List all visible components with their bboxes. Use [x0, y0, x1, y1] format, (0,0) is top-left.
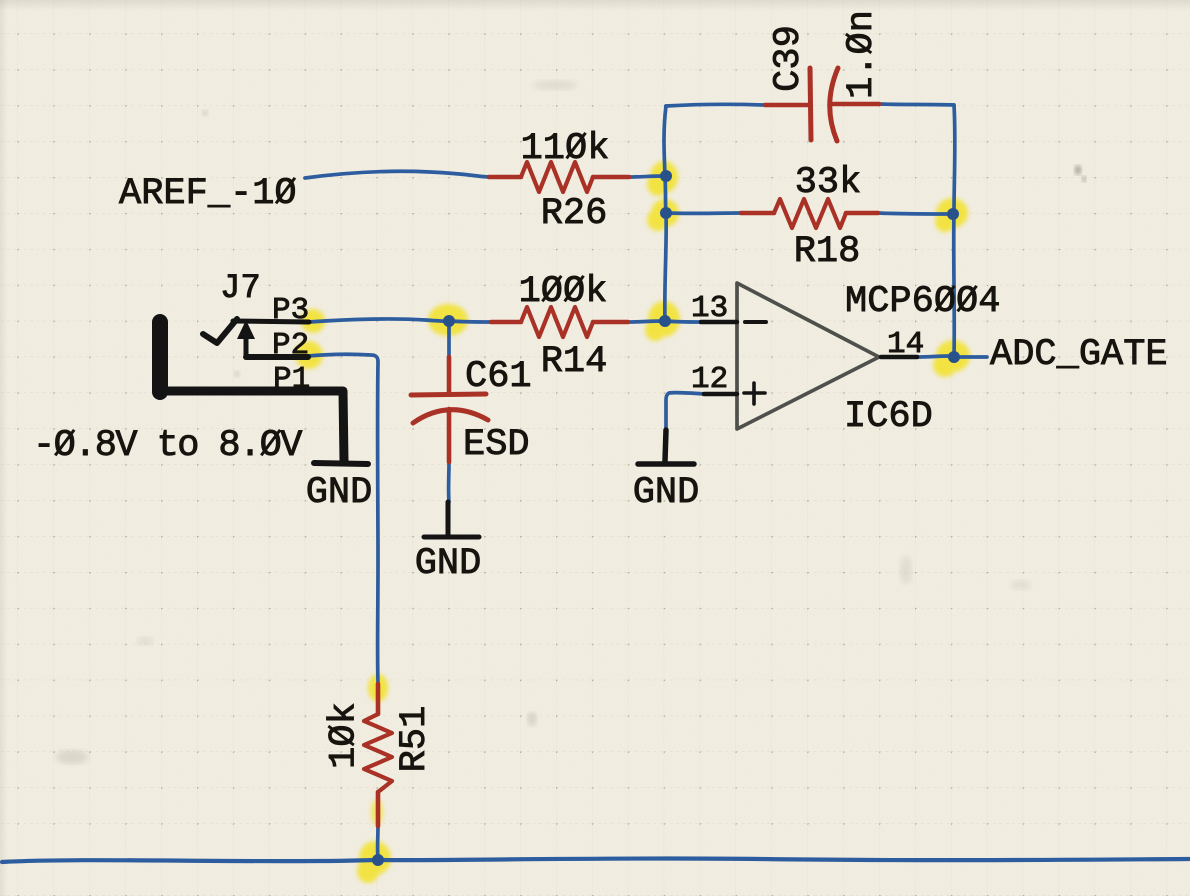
- svg-text:P1: P1: [273, 362, 310, 397]
- svg-text:14: 14: [887, 327, 924, 362]
- svg-text:11Øk: 11Øk: [521, 128, 610, 170]
- node R18 right: [947, 208, 959, 220]
- gnd symbol pin12: [638, 430, 694, 464]
- resistor R26: [489, 175, 521, 180]
- resistor R14: [491, 320, 521, 325]
- wire AREF to R26: [305, 171, 489, 178]
- capacitor C61: [447, 357, 452, 394]
- R51 top highlight: [368, 674, 388, 702]
- pin 13 line: [701, 320, 737, 325]
- wire bottom rail: [2, 858, 1189, 862]
- svg-text:C39: C39: [768, 25, 810, 92]
- J7 body bar: [152, 322, 168, 392]
- node highlight output: [936, 340, 970, 372]
- resistor R51: [376, 684, 381, 714]
- wire pin12 to gnd: [666, 393, 704, 430]
- capacitor C39: [765, 103, 810, 108]
- svg-text:C61: C61: [465, 356, 532, 398]
- wire C61 node to R14: [449, 321, 491, 322]
- J7 gnd bar: [314, 463, 368, 464]
- wire node to pin13: [665, 321, 701, 322]
- wire R14 to pin13 node: [628, 321, 665, 322]
- node output: [948, 351, 960, 363]
- node highlight R18 right: [936, 198, 968, 228]
- wire output node to label: [959, 355, 987, 359]
- wire top rail left: [666, 104, 764, 106]
- node R18 left: [660, 207, 672, 219]
- svg-text:P2: P2: [272, 328, 309, 363]
- op-amp minus sign: [745, 320, 766, 324]
- svg-text:13: 13: [691, 291, 728, 326]
- node bottom rail: [372, 854, 384, 866]
- svg-text:ADC_GATE: ADC_GATE: [990, 334, 1168, 376]
- wire R18 right: [878, 213, 953, 214]
- wire C61 top segment: [447, 323, 451, 357]
- pin 14 line: [881, 355, 917, 360]
- paper smudges: [56, 80, 1087, 764]
- svg-text:GND: GND: [306, 472, 373, 514]
- svg-text:R26: R26: [541, 193, 608, 235]
- svg-text:MCP6ØØ4: MCP6ØØ4: [845, 281, 1000, 323]
- node highlight R18 left: [651, 199, 679, 227]
- pin 12 line: [704, 392, 737, 397]
- wire P2 down to R51: [308, 354, 378, 683]
- resistor R18: [741, 211, 774, 216]
- svg-text:R51: R51: [394, 706, 436, 773]
- svg-text:33k: 33k: [795, 162, 862, 204]
- wire top rail right: [879, 104, 954, 105]
- wire pin14 to output node: [917, 356, 950, 357]
- node highlight pin13: [648, 301, 680, 337]
- pin P2 line: [246, 354, 308, 360]
- svg-text:ESD: ESD: [463, 424, 530, 466]
- node C61: [443, 315, 455, 327]
- red components: [364, 68, 879, 826]
- wire right vertical: [954, 105, 955, 356]
- svg-text:1.Øn: 1.Øn: [841, 10, 883, 99]
- svg-text:R14: R14: [541, 341, 608, 383]
- connector J7: [156, 319, 368, 464]
- node pin13: [659, 315, 671, 327]
- svg-text:12: 12: [691, 362, 728, 397]
- svg-text:IC6D: IC6D: [844, 396, 933, 438]
- wire left vertical: [664, 106, 666, 321]
- svg-text:P3: P3: [272, 293, 309, 328]
- yellow junction highlights: [295, 161, 970, 883]
- svg-text:GND: GND: [633, 472, 700, 514]
- pin P3 line: [233, 321, 309, 322]
- node highlight R26/left: [650, 161, 678, 193]
- R51 lead smear: [371, 799, 383, 825]
- pin P1 sleeve path: [157, 391, 344, 461]
- node highlight C61: [428, 304, 468, 336]
- svg-text:J7: J7: [220, 270, 261, 308]
- svg-text:1Øk: 1Øk: [324, 702, 366, 769]
- svg-text:1ØØk: 1ØØk: [519, 271, 608, 313]
- wire C61 bottom segment: [447, 462, 451, 502]
- pin P2 arrow shaft: [244, 334, 249, 357]
- bottom rail junction highlight: [359, 841, 391, 875]
- svg-text:AREF_-1Ø: AREF_-1Ø: [119, 173, 297, 215]
- wire R18 left: [666, 211, 741, 215]
- pin P2 arrowhead: [237, 320, 255, 339]
- wire P3 to C61 node: [309, 319, 449, 322]
- J7 tip contact: [203, 319, 237, 343]
- pin P2 highlight: [295, 341, 323, 369]
- wire R51 bottom: [376, 826, 380, 858]
- pin P3 highlight: [301, 309, 325, 333]
- wire R26 to node: [629, 176, 666, 177]
- gnd symbol C61: [424, 502, 479, 537]
- svg-text:GND: GND: [415, 543, 482, 585]
- op-amp IC6D triangle: [737, 283, 879, 429]
- op-amp plus sign: [744, 383, 765, 404]
- node R26: [660, 170, 672, 182]
- svg-text:-Ø.8V to 8.ØV: -Ø.8V to 8.ØV: [33, 425, 302, 467]
- svg-text:R18: R18: [794, 231, 861, 273]
